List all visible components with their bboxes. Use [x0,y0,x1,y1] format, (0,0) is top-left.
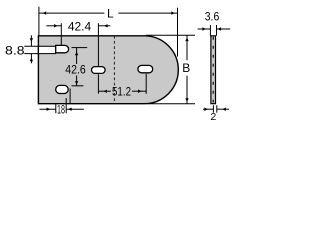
dashed line on plate [113,36,115,104]
svg-text:18: 18 [57,103,65,117]
dimension 18 [40,89,84,114]
svg-text:51.2: 51.2 [112,84,131,98]
svg-text:2: 2 [210,111,216,123]
slot S2 middle [92,67,106,74]
plate front view (rounded right end) [38,36,178,104]
dimension 8.8 [24,35,56,63]
slot S4 bottom-left [56,85,68,93]
svg-text:L: L [107,6,114,20]
plate left edge redraw over channel [37,46,39,55]
dimension 42.4 [46,23,110,66]
side view strip [211,36,216,104]
slot S1 top-left [56,45,69,52]
dimension 42.6 [72,48,88,86]
dimension 3.6 [198,25,231,36]
dimension L [39,7,178,57]
side view center dash-dot line [212,37,214,103]
slot S1 channel (open to left edge) [38,47,56,53]
dimension 2 [203,105,229,113]
svg-text:42.4: 42.4 [68,19,92,33]
svg-text:3.6: 3.6 [205,9,220,23]
dimension B [146,35,195,103]
dimension 51.2 [98,74,146,94]
svg-text:B: B [182,61,190,75]
svg-text:8.8: 8.8 [5,44,25,58]
svg-text:42.6: 42.6 [65,62,86,76]
slot S3 right [138,65,153,72]
